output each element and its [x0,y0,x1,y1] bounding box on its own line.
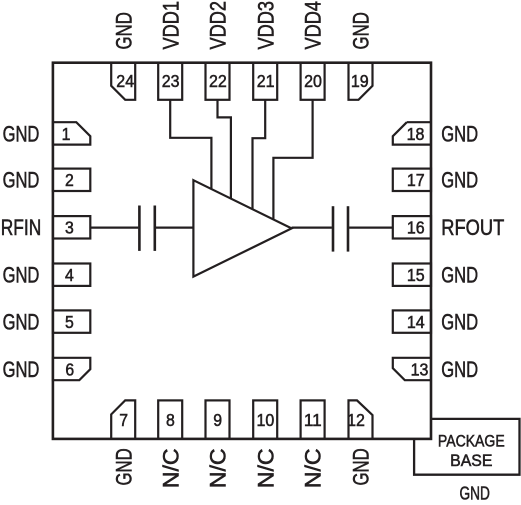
capacitor C1 left plate [138,206,141,251]
pin 12 box [349,400,373,439]
svg-text:GND: GND [349,448,374,485]
svg-text:RFOUT: RFOUT [441,215,504,240]
wire RFIN pin3 to C1 [90,227,138,229]
svg-text:23: 23 [162,71,180,91]
pin 11 box [301,400,325,439]
op-amp A1 (amplifier triangle) [193,180,291,276]
svg-text:GND: GND [3,168,40,193]
svg-text:16: 16 [407,218,425,238]
pin 20 box [301,63,325,100]
svg-text:VDD4: VDD4 [301,1,326,50]
svg-text:GND: GND [460,483,490,500]
svg-text:BASE: BASE [450,451,492,470]
svg-text:18: 18 [407,124,425,144]
svg-text:1: 1 [62,124,71,144]
wire VDD4 pin20 to amplifier [273,100,312,220]
svg-text:7: 7 [119,410,128,430]
svg-text:GND: GND [441,121,478,146]
svg-text:5: 5 [65,312,74,332]
svg-text:20: 20 [304,71,322,91]
wire VDD3 pin21 to amplifier [253,100,266,209]
svg-text:N/C: N/C [206,448,231,488]
package outline (QFN-24 body) [53,63,431,439]
pin 8 box [158,400,182,439]
svg-text:GND: GND [441,168,478,193]
wire C2 to RFOUT pin16 [349,227,393,229]
svg-text:8: 8 [166,410,175,430]
svg-text:N/C: N/C [253,448,278,488]
svg-text:19: 19 [351,71,369,91]
svg-text:22: 22 [209,71,227,91]
capacitor C2 right plate [347,206,350,251]
svg-text:12: 12 [347,410,365,430]
pin 2 box [53,169,90,191]
svg-text:GND: GND [441,310,478,335]
pin 5 box [53,310,90,332]
pin 16 box [393,216,431,238]
svg-text:GND: GND [441,357,478,382]
pin 6 box [53,358,90,380]
svg-text:13: 13 [411,359,429,379]
svg-text:RFIN: RFIN [1,215,42,240]
svg-text:GND: GND [3,357,40,382]
pin 18 box [393,122,431,144]
pin 9 box [206,400,230,439]
svg-text:15: 15 [407,265,425,285]
pin 21 box [253,63,277,100]
svg-text:GND: GND [111,12,136,49]
pin 1 box [53,122,90,144]
svg-text:11: 11 [304,410,322,430]
svg-text:14: 14 [407,312,425,332]
svg-text:GND: GND [3,263,40,288]
wire VDD1 pin23 to amplifier [170,100,211,189]
svg-text:24: 24 [116,71,134,91]
pin 19 box [349,63,373,100]
svg-text:GND: GND [111,448,136,485]
wire amplifier output to C2 [292,227,332,229]
pin 10 box [253,400,277,439]
pin 15 box [393,264,431,286]
pin 7 box [111,400,135,439]
pin 13 box [393,358,431,380]
pin 24 box [111,63,135,100]
pin 22 box [206,63,230,100]
svg-text:PACKAGE: PACKAGE [438,432,505,451]
svg-text:GND: GND [441,263,478,288]
svg-text:2: 2 [65,170,74,190]
wire VDD2 pin22 to amplifier [218,100,231,199]
package base box [414,419,519,475]
svg-text:3: 3 [65,218,74,238]
svg-text:VDD2: VDD2 [206,1,231,50]
pin 17 box [393,169,431,191]
capacitor C2 left plate [332,206,335,251]
wire C1 to amplifier input [156,227,194,229]
svg-text:GND: GND [349,12,374,49]
pin 14 box [393,310,431,332]
svg-text:VDD3: VDD3 [253,1,278,50]
svg-text:9: 9 [213,410,222,430]
svg-text:4: 4 [65,265,74,285]
svg-text:GND: GND [3,121,40,146]
svg-text:N/C: N/C [158,448,183,488]
pin 23 box [158,63,182,100]
svg-text:VDD1: VDD1 [158,1,183,50]
svg-text:GND: GND [3,310,40,335]
capacitor C1 right plate [154,206,157,251]
svg-text:10: 10 [257,410,275,430]
pin 4 box [53,264,90,286]
svg-text:N/C: N/C [301,448,326,488]
svg-text:6: 6 [65,359,74,379]
svg-text:21: 21 [257,71,275,91]
svg-text:17: 17 [407,170,425,190]
pin 3 box [53,216,90,238]
